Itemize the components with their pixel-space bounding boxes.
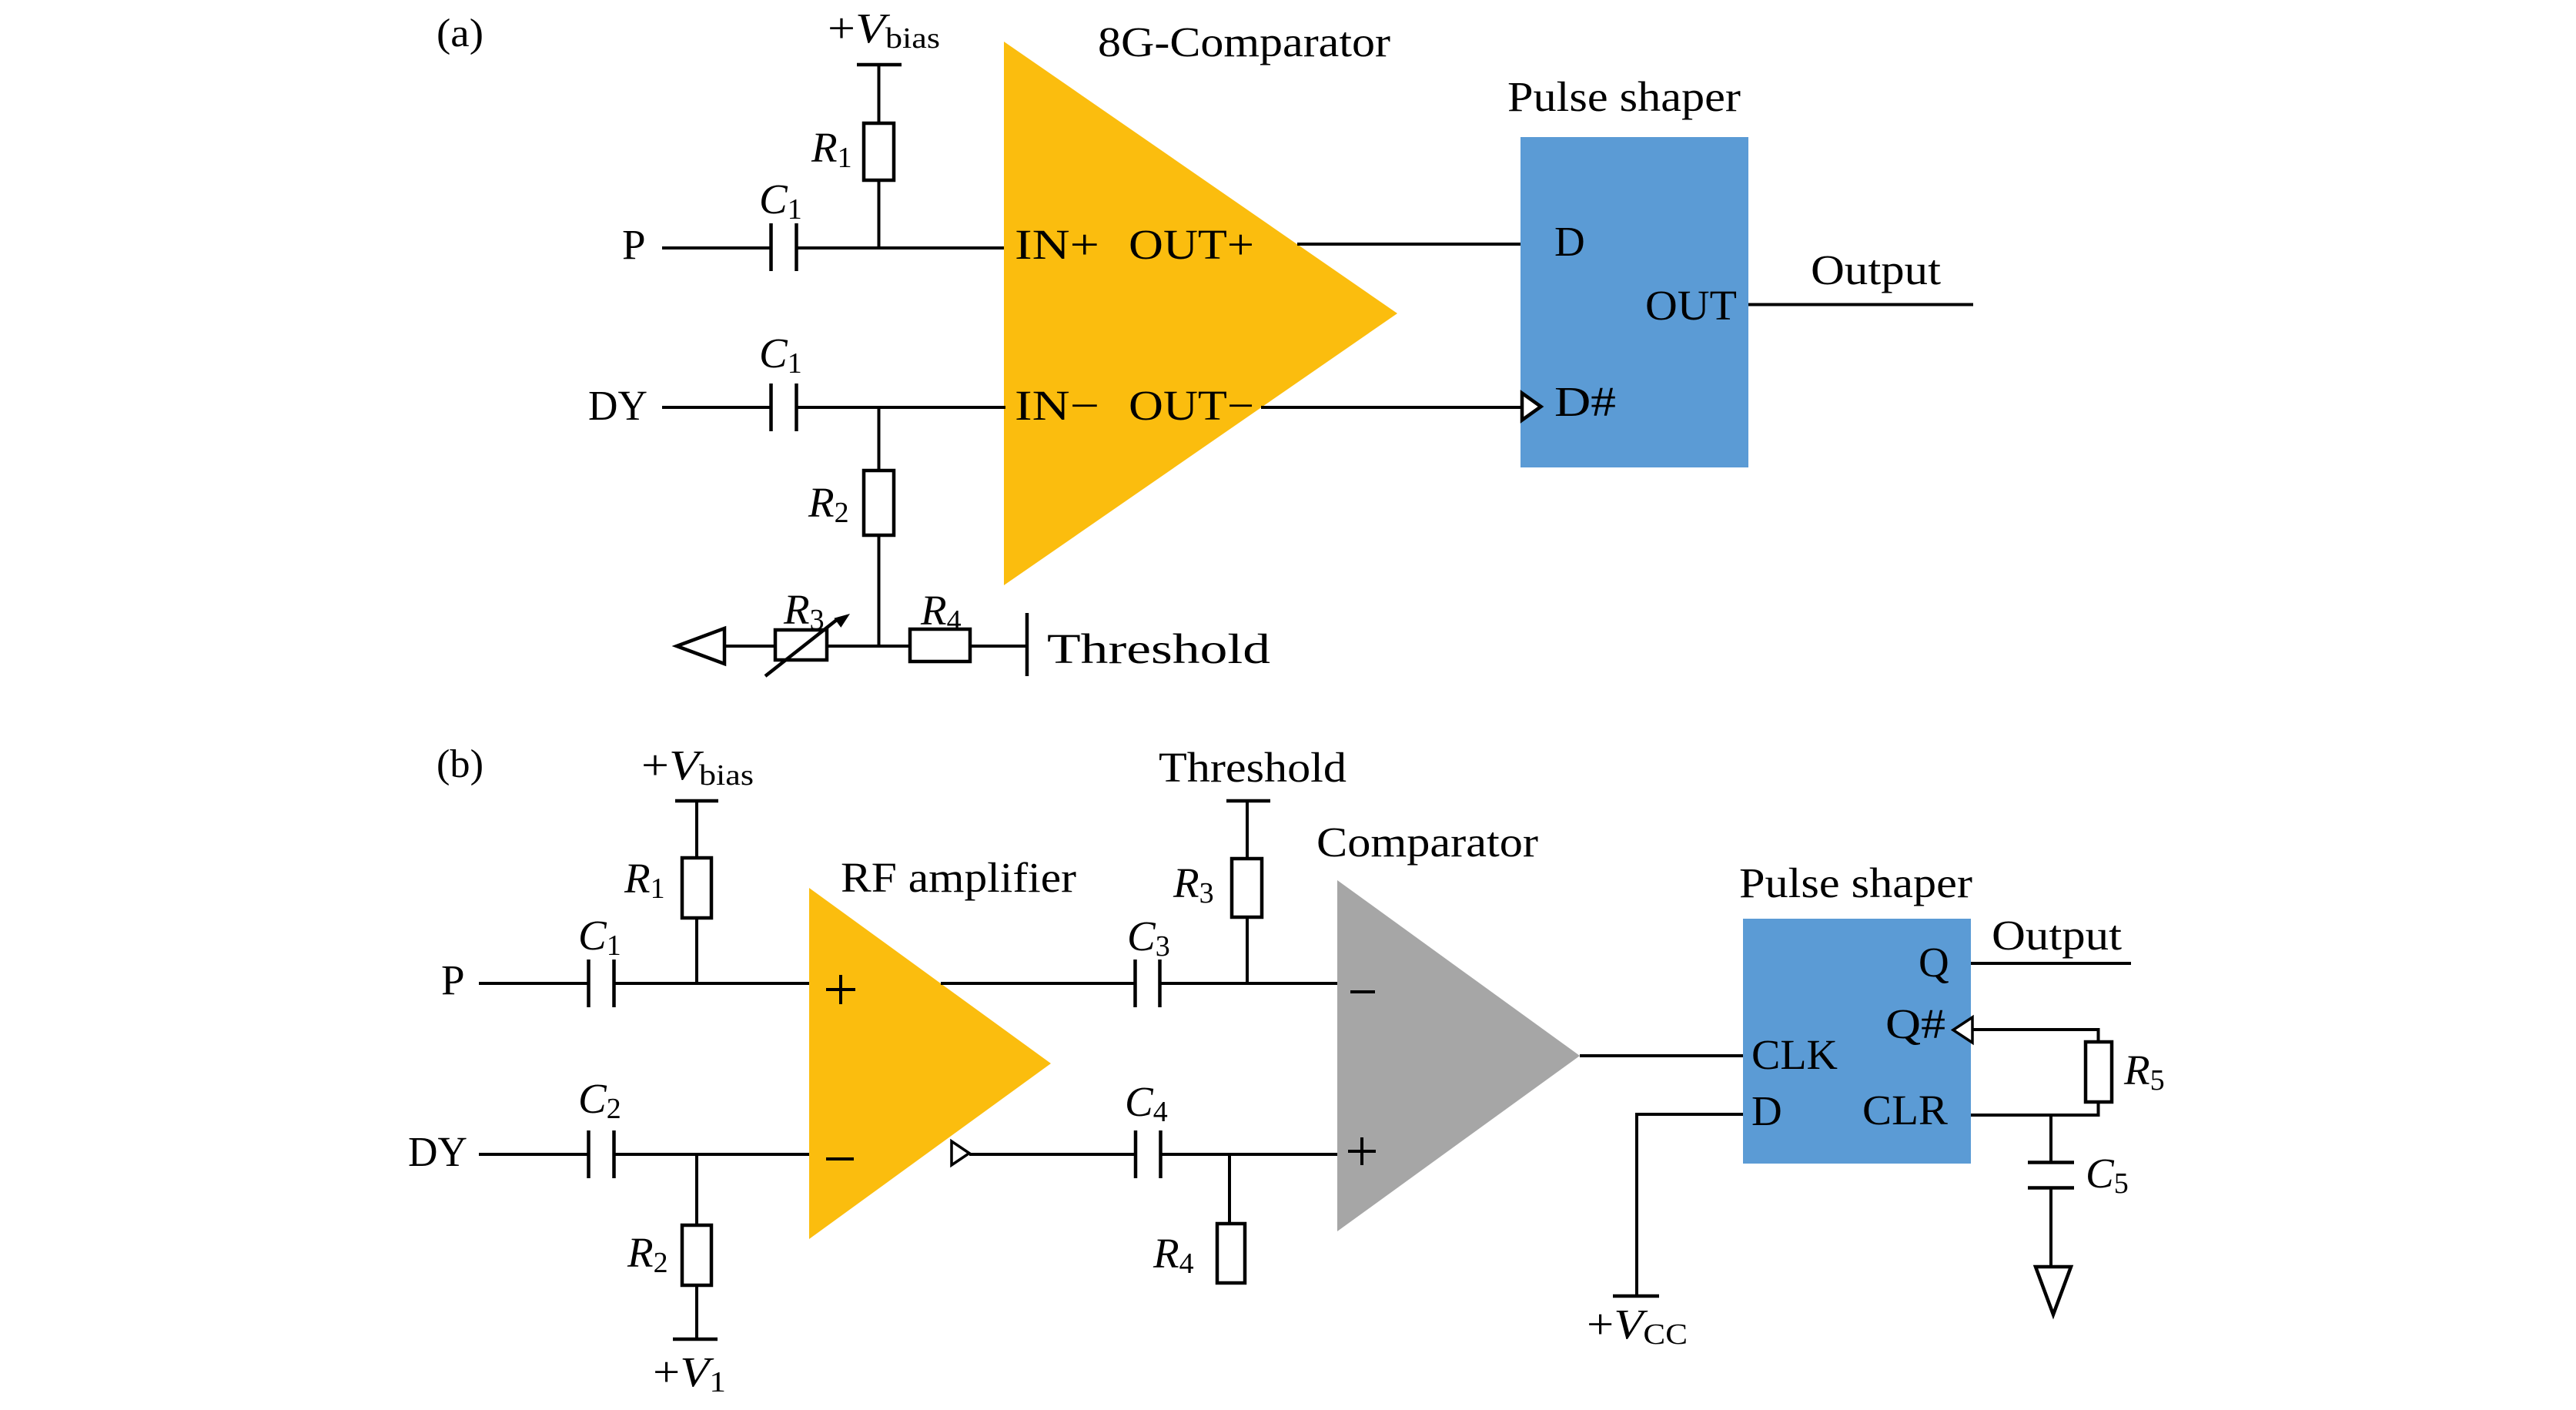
wire DY to C2 [479,1153,589,1156]
svg-text:D: D [1751,1087,1782,1134]
ground arrow terminal [2036,1267,2071,1315]
wire CLR to R5/C5 junction [1971,1114,2100,1117]
svg-text:8G-Comparator: 8G-Comparator [1098,18,1390,65]
resistor R1 (b) [624,855,711,918]
minus marker at RF amp input [826,1157,854,1160]
wire P to C1 (b) [479,982,589,985]
wire R3 to junction to R4 [827,645,910,648]
svg-text:(a): (a) [437,12,483,55]
arrow terminal (left open triangle, a) [677,628,724,664]
wire DY to C1 [662,406,771,409]
svg-text:CLK: CLK [1751,1031,1838,1078]
resistor R1 (a) [811,123,894,180]
svg-text:Pulse shaper: Pulse shaper [1739,859,1972,906]
resistor R5 [2086,1042,2165,1102]
capacitor C1 (b) [578,912,621,1007]
svg-text:Output: Output [1992,912,2122,959]
svg-text:DY: DY [588,382,647,429]
net Threshold terminal (b) [1159,744,1347,801]
resistor R4 (b) [1153,1224,1245,1283]
buffer triangle at RF amp inverted output [952,1141,969,1165]
wire C5 to ground [2049,1187,2052,1268]
buffer triangle at D# input [1522,394,1541,420]
svg-text:D#: D# [1554,378,1616,425]
wire node to R2 (b) [695,1154,698,1227]
output wire (a) [1748,303,1973,306]
resistor R4 (a) [910,587,970,661]
wire +Vbias to R1 [878,65,881,125]
threshold terminal bar (a) [1025,613,1029,676]
svg-text:CLR: CLR [1862,1087,1948,1134]
wire arrow to R3 [724,645,775,648]
svg-text:Pulse shaper: Pulse shaper [1507,73,1741,120]
op-amp U1 8G-Comparator triangle [1004,42,1397,585]
capacitor C3 [1127,913,1170,1007]
buffer triangle at Q# output [1953,1017,1972,1043]
svg-text:Output: Output [1811,246,1941,293]
plus marker at comparator input [1348,1137,1376,1165]
svg-text:P: P [622,221,646,268]
net +V1 terminal [653,1339,726,1398]
svg-text:OUT−: OUT− [1129,382,1254,429]
svg-text:Threshold: Threshold [1047,625,1270,672]
wire node to R4 (b) [1228,1154,1231,1225]
capacitor C1 (P branch, a) [759,176,802,271]
output wire (b) [1971,962,2131,965]
wire C4 to comparator + input [1162,1153,1339,1156]
svg-text:Comparator: Comparator [1316,819,1538,866]
net +Vcc terminal [1587,1296,1688,1351]
wire R1 to node on P line (b) [695,918,698,985]
wire R2 to threshold row [878,535,881,648]
pulse shaper block (a) [1521,137,1748,467]
wire comparator out to CLK [1580,1054,1745,1057]
wire OUT- to D# [1261,406,1522,409]
wire RF amp out- to C4 [969,1153,1136,1156]
net +Vbias terminal (a) [828,5,940,65]
net +Vbias terminal (b) [641,742,754,801]
resistor R3 (b) [1173,859,1262,917]
resistor R2 (a) [808,471,894,535]
wire C1 to RF amp + input [615,982,811,985]
capacitor C5 [2028,1150,2129,1200]
capacitor C2 (b) [578,1075,621,1178]
svg-text:Q#: Q# [1885,1000,1945,1047]
svg-text:IN+: IN+ [1015,221,1099,268]
wire R3 to node on C3 line [1246,917,1249,985]
variable resistor R3 (a) [765,586,850,676]
wire C1 to IN+ [798,246,1005,250]
svg-text:RF amplifier: RF amplifier [841,854,1076,901]
wire R1 to node on P line [878,180,881,250]
minus marker at comparator input [1350,990,1375,993]
wire +Vbias to R1 (b) [695,801,698,859]
wire R5 to CLR row [2097,1102,2100,1117]
wire OUT+ to D [1297,243,1522,246]
wire R4 to Threshold terminal [970,645,1027,648]
wire C1 to IN- [798,406,1005,409]
wire node to R2 [878,407,881,472]
wire RF amp out+ to C3 [941,982,1136,985]
wire C2 to RF amp - input [615,1153,811,1156]
svg-text:OUT: OUT [1645,282,1737,329]
svg-text:(b): (b) [437,742,483,786]
resistor R2 (b) [627,1225,711,1285]
capacitor C1 (DY branch, a) [759,330,802,431]
svg-text:D: D [1554,218,1585,265]
svg-text:IN−: IN− [1015,382,1099,429]
wire Q# to R5 [1972,1030,2099,1043]
svg-text:Q: Q [1919,939,1949,986]
comparator U2 triangle (b) [1337,880,1580,1231]
wire R2 to +V1 terminal [695,1285,698,1339]
svg-text:P: P [441,956,465,1003]
plus marker at RF amp input [826,975,855,1004]
RF amplifier triangle (b) [809,888,1051,1239]
wire C3 to comparator - input [1161,982,1339,985]
svg-text:DY: DY [408,1128,467,1175]
wire P to C1 [662,246,771,250]
wire junction to C5 [2049,1115,2052,1164]
wire D input from +Vcc [1637,1114,1743,1296]
svg-text:Threshold: Threshold [1159,744,1347,791]
wire Threshold to R3 (b) [1246,801,1249,860]
pulse shaper block (b) [1743,919,1971,1164]
svg-text:OUT+: OUT+ [1129,221,1254,268]
capacitor C4 [1125,1078,1168,1178]
